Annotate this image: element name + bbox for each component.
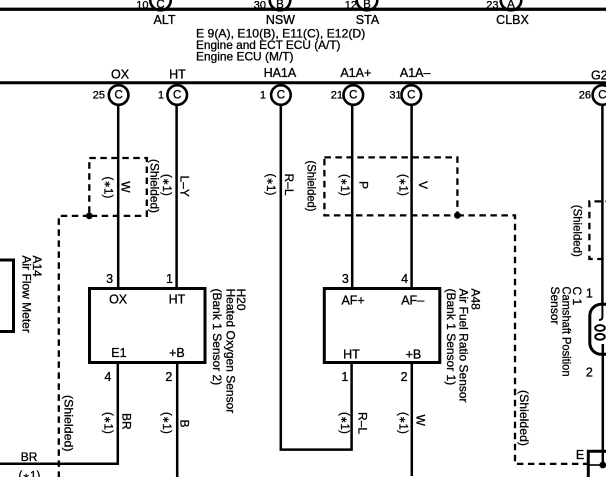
svg-text:BR: BR bbox=[120, 413, 134, 430]
svg-text:Engine ECU (M/T): Engine ECU (M/T) bbox=[196, 50, 294, 64]
svg-text:3: 3 bbox=[106, 272, 113, 286]
svg-text:HA1A: HA1A bbox=[264, 66, 297, 80]
svg-text:W: W bbox=[119, 181, 133, 193]
connector pin 26(C) G2 bbox=[579, 85, 606, 105]
svg-text:3: 3 bbox=[342, 272, 349, 286]
svg-text:G2: G2 bbox=[591, 68, 606, 82]
ECU box bottom edge overdraw bbox=[0, 8, 606, 11]
svg-text:W: W bbox=[413, 415, 427, 427]
svg-text:1: 1 bbox=[260, 89, 266, 101]
svg-text:+B: +B bbox=[406, 347, 422, 361]
svg-text:A1A–: A1A– bbox=[400, 66, 431, 80]
svg-text:AF–: AF– bbox=[401, 294, 424, 308]
svg-text:C: C bbox=[277, 90, 285, 102]
svg-text:C: C bbox=[349, 90, 357, 102]
connector pin 31(C) A1A- bbox=[389, 85, 421, 105]
wire BR from H20 pin4 to left bbox=[0, 364, 118, 464]
svg-text:31: 31 bbox=[389, 89, 401, 101]
svg-text:OX: OX bbox=[111, 68, 130, 82]
svg-text:(Shielded): (Shielded) bbox=[305, 161, 319, 212]
svg-text:V: V bbox=[416, 181, 430, 189]
svg-text:1: 1 bbox=[158, 89, 164, 101]
svg-text:26: 26 bbox=[579, 89, 591, 101]
svg-text:HT: HT bbox=[169, 293, 186, 307]
connector pin 23(A) CLBX bbox=[486, 0, 521, 11]
connector pin 30(B) NSW bbox=[254, 0, 291, 11]
wire A1A+ vertical bbox=[351, 105, 354, 289]
svg-text:A1A+: A1A+ bbox=[340, 66, 371, 80]
svg-text:(∗1): (∗1) bbox=[102, 177, 114, 199]
svg-text:STA: STA bbox=[356, 13, 380, 27]
connector pin 21(C) A1A+ bbox=[331, 85, 363, 105]
svg-text:HT: HT bbox=[169, 68, 186, 82]
svg-text:2: 2 bbox=[401, 370, 408, 384]
svg-text:1: 1 bbox=[341, 370, 348, 384]
svg-text:(∗1): (∗1) bbox=[264, 174, 276, 196]
shield box around A1A wires bbox=[324, 157, 457, 215]
svg-text:HT: HT bbox=[343, 347, 360, 361]
svg-text:NSW: NSW bbox=[266, 13, 295, 27]
ECU box lower edge (lower thick line) bbox=[0, 81, 606, 84]
wire from C1 coil to pin 2 bbox=[602, 344, 605, 465]
svg-text:E: E bbox=[576, 448, 584, 462]
wire HA1A to A48 pin1 bbox=[281, 105, 352, 450]
svg-text:Heated Oxygen Sensor: Heated Oxygen Sensor bbox=[223, 289, 237, 414]
component box H20 heated oxygen sensor bbox=[90, 289, 206, 363]
connector pin 1(C) HT bbox=[158, 85, 187, 105]
connector pin 25(C) OX bbox=[93, 85, 129, 105]
shield connection line inside E box bbox=[590, 464, 603, 466]
svg-text:4: 4 bbox=[104, 370, 111, 384]
svg-text:R–L: R–L bbox=[282, 174, 296, 196]
shield box around G2 wire bbox=[589, 201, 606, 259]
svg-text:1: 1 bbox=[166, 272, 173, 286]
wire HT vertical bbox=[175, 105, 178, 289]
svg-text:(Bank 1 Sensor 2): (Bank 1 Sensor 2) bbox=[210, 289, 224, 386]
svg-text:AF+: AF+ bbox=[341, 294, 364, 308]
svg-text:R–L: R–L bbox=[356, 412, 370, 434]
svg-text:(∗1): (∗1) bbox=[160, 174, 172, 196]
pickup coil turn 2 bbox=[595, 334, 605, 340]
svg-text:OX: OX bbox=[109, 293, 128, 307]
svg-text:(Shielded): (Shielded) bbox=[62, 395, 76, 452]
svg-text:L–Y: L–Y bbox=[178, 176, 192, 197]
ECU name text block bbox=[196, 27, 365, 64]
svg-text:(∗1): (∗1) bbox=[101, 412, 113, 434]
svg-text:(∗1): (∗1) bbox=[160, 412, 172, 434]
pickup coil lead inside C1 bbox=[599, 305, 602, 320]
svg-text:P: P bbox=[356, 181, 370, 189]
wire OX vertical bbox=[117, 105, 120, 289]
shield box around OX wire bbox=[89, 158, 147, 216]
wire B from H20 pin2 down bbox=[176, 364, 179, 477]
svg-text:1: 1 bbox=[586, 287, 593, 301]
svg-text:25: 25 bbox=[93, 89, 105, 101]
svg-text:B: B bbox=[178, 420, 192, 428]
camshaft position sensor C1 capsule bbox=[590, 304, 606, 354]
shield drain wire right bbox=[457, 215, 588, 464]
svg-text:(∗1): (∗1) bbox=[19, 471, 41, 477]
svg-text:C: C bbox=[598, 90, 606, 102]
svg-text:Air Flow Meter: Air Flow Meter bbox=[20, 256, 34, 333]
ECU box bottom edge (upper thick line) bbox=[0, 8, 606, 11]
connector pin 10(C) ALT bbox=[136, 0, 171, 11]
svg-text:2: 2 bbox=[165, 370, 172, 384]
svg-text:(Shielded): (Shielded) bbox=[571, 205, 585, 257]
svg-text:E1: E1 bbox=[111, 346, 126, 360]
wire A1A- vertical bbox=[410, 105, 413, 289]
shield drain junction dot (right) bbox=[454, 212, 461, 219]
shield drain junction dot (left) bbox=[86, 213, 93, 220]
svg-text:(∗1): (∗1) bbox=[338, 174, 350, 196]
wire G2 vertical bbox=[601, 104, 604, 305]
svg-text:C: C bbox=[114, 90, 122, 102]
svg-text:BR: BR bbox=[21, 450, 38, 464]
svg-text:C: C bbox=[173, 90, 181, 102]
svg-text:(∗1): (∗1) bbox=[397, 412, 409, 434]
svg-text:(∗1): (∗1) bbox=[338, 412, 350, 434]
wire W from A48 pin2 down bbox=[411, 364, 414, 476]
ground junction box E bottom right bbox=[588, 451, 606, 477]
svg-text:C: C bbox=[407, 90, 415, 102]
svg-text:2: 2 bbox=[586, 366, 593, 380]
shield drain wire left bbox=[59, 216, 90, 477]
pickup coil turn 1 bbox=[595, 325, 605, 331]
svg-text:(∗1): (∗1) bbox=[396, 174, 408, 196]
svg-text:CLBX: CLBX bbox=[496, 13, 529, 27]
svg-text:(Shielded): (Shielded) bbox=[148, 159, 162, 213]
connector pin 12(B) STA bbox=[345, 0, 378, 11]
shield ground junction dot bbox=[599, 462, 606, 469]
svg-text:(Bank 1 Sensor 1): (Bank 1 Sensor 1) bbox=[444, 289, 458, 386]
component box A14 air flow meter bbox=[0, 260, 14, 332]
svg-text:(Shielded): (Shielded) bbox=[517, 390, 531, 446]
svg-text:21: 21 bbox=[331, 89, 343, 101]
connector pin 1(C) HA1A bbox=[260, 85, 291, 105]
svg-text:4: 4 bbox=[401, 272, 408, 286]
svg-text:ALT: ALT bbox=[154, 13, 176, 27]
svg-text:+B: +B bbox=[169, 346, 185, 360]
component box A48 air fuel ratio sensor bbox=[324, 289, 440, 363]
svg-text:Sensor: Sensor bbox=[548, 287, 562, 325]
